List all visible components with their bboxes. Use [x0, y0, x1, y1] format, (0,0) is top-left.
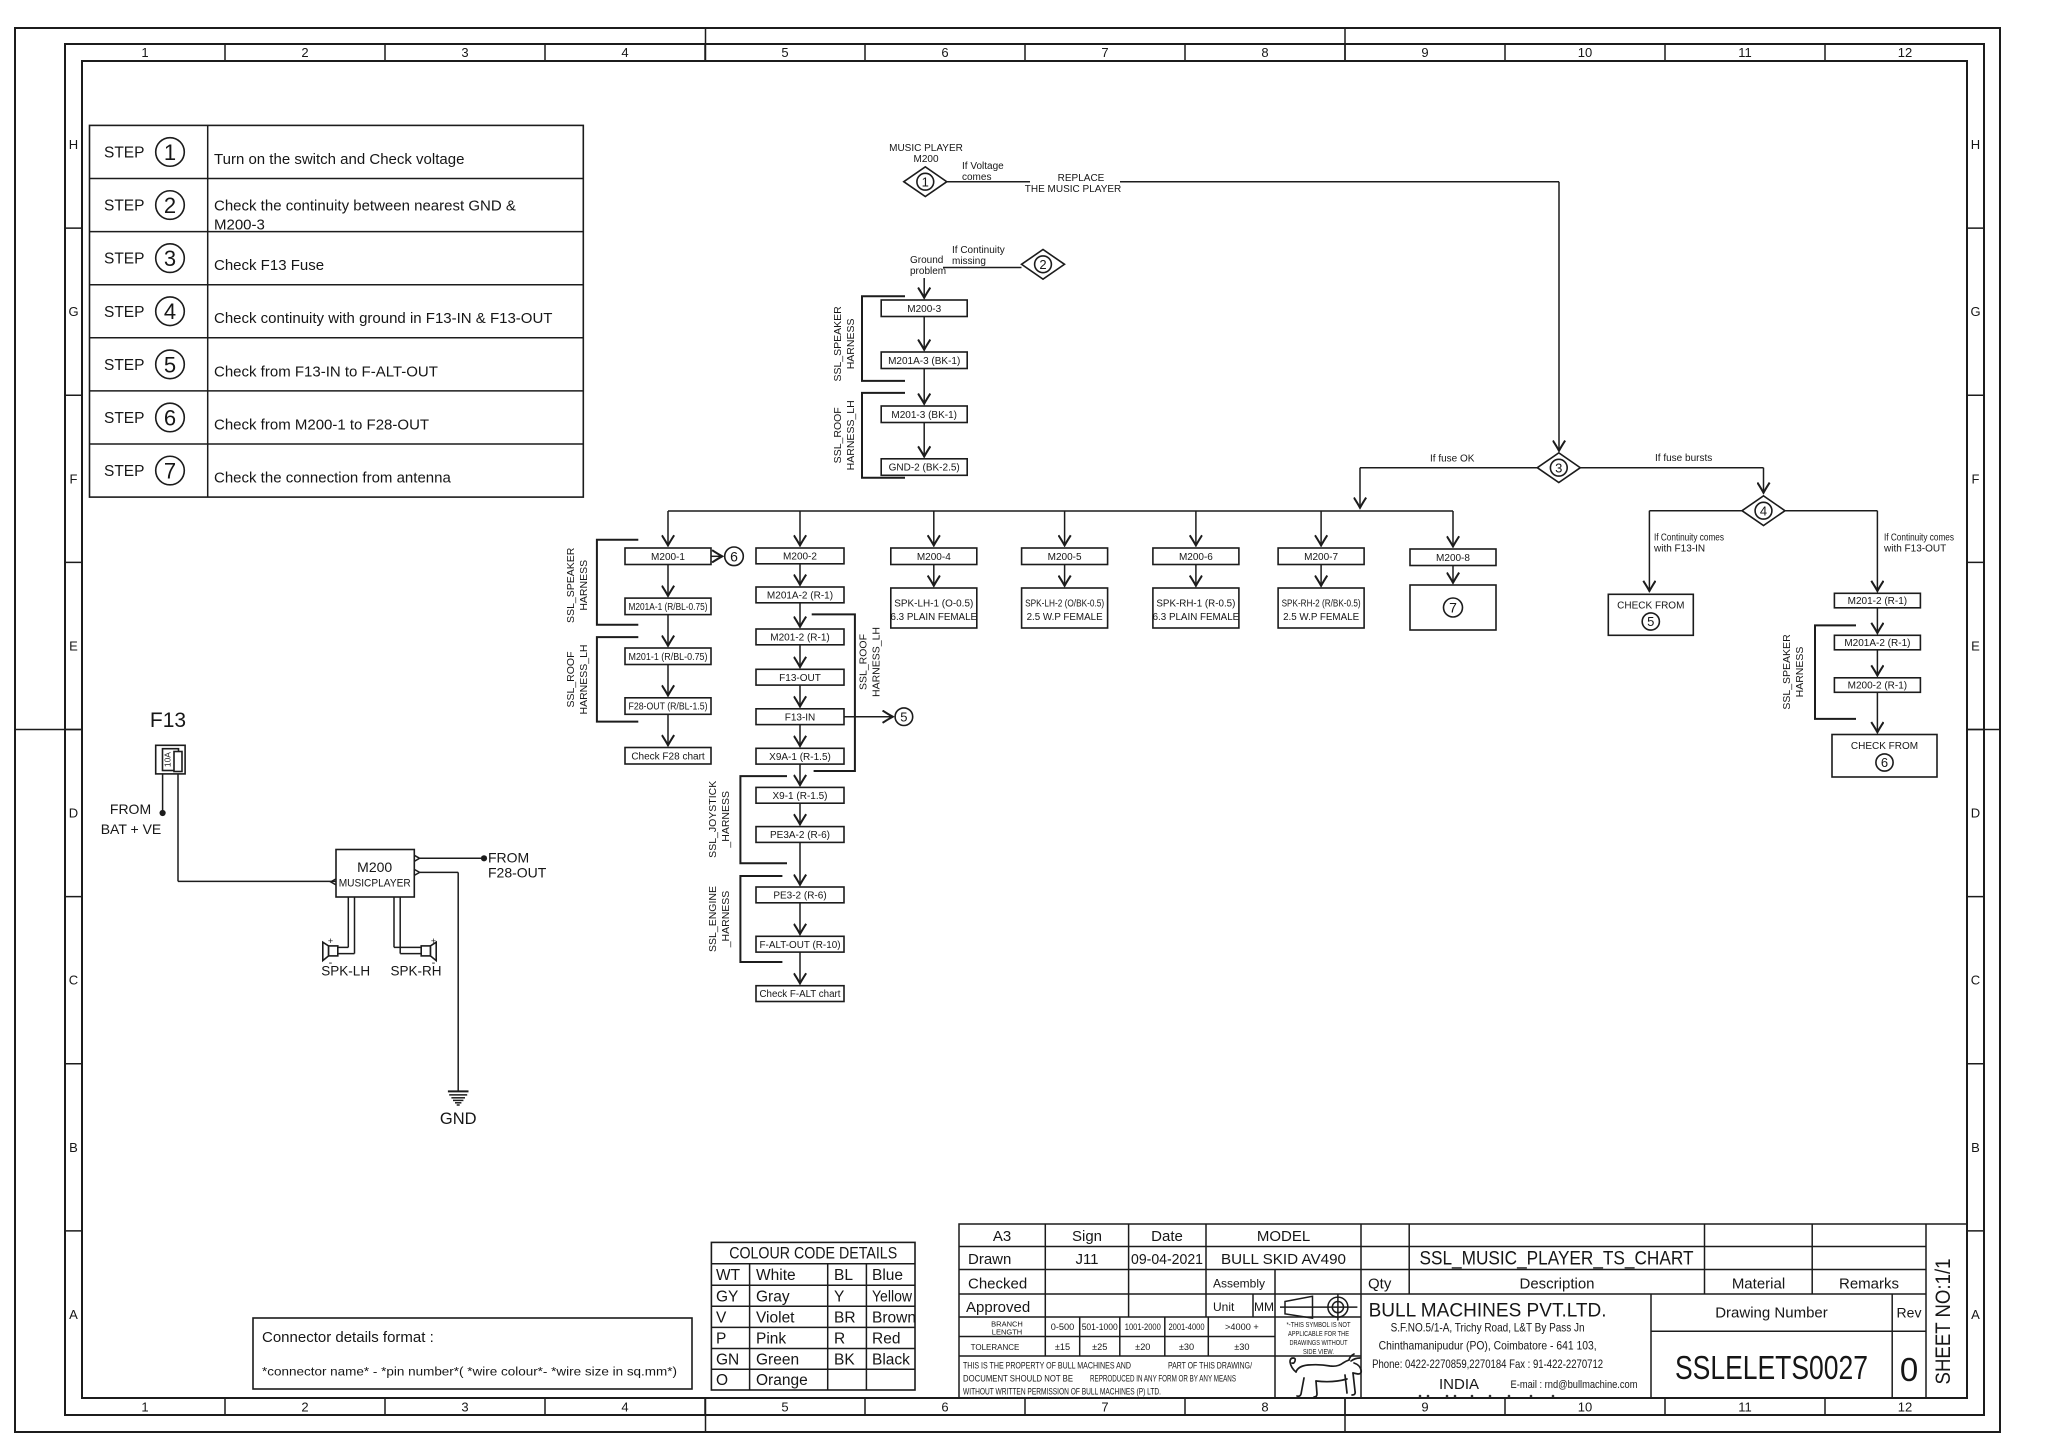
svg-text:S.F.NO.5/1-A, Trichy Road, L&T: S.F.NO.5/1-A, Trichy Road, L&T By Pass J… [1391, 1321, 1585, 1335]
svg-text:Red: Red [872, 1330, 900, 1347]
svg-text:Brown: Brown [872, 1309, 916, 1326]
svg-text:M201-2 (R-1): M201-2 (R-1) [1848, 596, 1907, 607]
svg-text:If Continuity comes: If Continuity comes [1654, 533, 1724, 544]
svg-text:9: 9 [1421, 45, 1428, 60]
svg-text:O: O [716, 1372, 728, 1389]
svg-text:5: 5 [164, 352, 176, 377]
svg-text:M200-3: M200-3 [907, 304, 941, 315]
svg-text:6: 6 [1881, 755, 1888, 770]
svg-text:M201A-1 (R/BL-0.75): M201A-1 (R/BL-0.75) [629, 602, 708, 613]
svg-text:SHEET NO:1/1: SHEET NO:1/1 [1932, 1259, 1955, 1385]
svg-text:Assembly: Assembly [1213, 1277, 1265, 1291]
svg-text:0-500: 0-500 [1051, 1322, 1075, 1332]
svg-text:Orange: Orange [756, 1372, 808, 1389]
svg-text:X9-1 (R-1.5): X9-1 (R-1.5) [772, 791, 827, 802]
svg-text:H: H [1971, 137, 1980, 152]
svg-text:5: 5 [1647, 614, 1654, 629]
svg-text:±20: ±20 [1135, 1342, 1150, 1352]
svg-text:C: C [1971, 973, 1980, 988]
svg-text:±30: ±30 [1179, 1342, 1194, 1352]
svg-text:Violet: Violet [756, 1309, 795, 1326]
svg-text:F28-OUT: F28-OUT [488, 865, 547, 881]
svg-text:5: 5 [781, 45, 788, 60]
svg-text:8: 8 [1261, 45, 1268, 60]
svg-text:BL: BL [834, 1267, 853, 1284]
svg-text:M200-2 (R-1): M200-2 (R-1) [1848, 681, 1907, 692]
svg-text:2: 2 [164, 193, 176, 218]
svg-text:FROM: FROM [110, 801, 151, 817]
svg-text:E: E [69, 638, 78, 653]
svg-text:SPK-RH-2 (R/BK-0.5): SPK-RH-2 (R/BK-0.5) [1282, 599, 1361, 610]
svg-text:SPK-RH-1 (R-0.5): SPK-RH-1 (R-0.5) [1156, 599, 1235, 610]
svg-text:1: 1 [164, 140, 176, 165]
svg-text:F-ALT-OUT (R-10): F-ALT-OUT (R-10) [760, 940, 841, 951]
svg-text:>4000 +: >4000 + [1225, 1322, 1259, 1332]
svg-text:4: 4 [621, 45, 628, 60]
svg-text:SSL_SPEAKER: SSL_SPEAKER [565, 547, 577, 623]
svg-text:DOCUMENT SHOULD NOT BE: DOCUMENT SHOULD NOT BE [963, 1374, 1073, 1385]
svg-text:3: 3 [164, 246, 176, 271]
svg-text:9: 9 [1421, 1400, 1428, 1415]
svg-text:2: 2 [1039, 257, 1046, 272]
svg-text:M200-1: M200-1 [651, 552, 685, 563]
svg-text:with F13-IN: with F13-IN [1653, 544, 1705, 555]
svg-text:Check F13 Fuse: Check F13 Fuse [214, 257, 324, 274]
svg-text:M200-2: M200-2 [783, 552, 817, 563]
svg-text:Remarks: Remarks [1839, 1276, 1899, 1293]
svg-text:2: 2 [301, 1400, 308, 1415]
svg-text:X9A-1 (R-1.5): X9A-1 (R-1.5) [769, 752, 831, 763]
svg-text:If fuse bursts: If fuse bursts [1655, 453, 1712, 464]
svg-text:8: 8 [1261, 1400, 1268, 1415]
svg-text:±30: ±30 [1234, 1342, 1249, 1352]
svg-text:If fuse OK: If fuse OK [1430, 454, 1475, 465]
svg-text:STEP: STEP [104, 251, 144, 268]
svg-text:1001-2000: 1001-2000 [1125, 1322, 1161, 1332]
svg-text:10: 10 [1578, 45, 1592, 60]
svg-text:CHECK FROM: CHECK FROM [1617, 601, 1684, 612]
svg-text:6: 6 [730, 548, 738, 564]
svg-text:G: G [1970, 304, 1980, 319]
svg-text:Chinthamanipudur (PO), Coimbat: Chinthamanipudur (PO), Coimbatore - 641 … [1379, 1339, 1597, 1353]
svg-text:If Voltage: If Voltage [962, 161, 1004, 172]
svg-text:CHECK FROM: CHECK FROM [1851, 741, 1918, 752]
svg-text:*connector name* - *pin numbe: *connector name* - *pin number*( *wire c… [262, 1365, 677, 1379]
svg-text:Approved: Approved [966, 1299, 1030, 1316]
svg-text:F: F [70, 471, 78, 486]
svg-text:1: 1 [141, 1400, 148, 1415]
svg-text:Check the continuity between n: Check the continuity between nearest GND… [214, 198, 516, 215]
svg-text:SSL_JOYSTICK: SSL_JOYSTICK [707, 781, 719, 858]
svg-text:MUSIC PLAYER: MUSIC PLAYER [889, 143, 963, 154]
svg-text:7: 7 [1101, 1400, 1108, 1415]
svg-text:STEP: STEP [104, 357, 144, 374]
svg-text:Check F28 chart: Check F28 chart [631, 751, 705, 762]
svg-text:Drawn: Drawn [968, 1251, 1011, 1268]
svg-text:WITHOUT WRITTEN PERMISSION OF: WITHOUT WRITTEN PERMISSION OF BULL MACHI… [963, 1387, 1161, 1398]
svg-text:M200-6: M200-6 [1179, 552, 1213, 563]
svg-text:0: 0 [1900, 1351, 1918, 1388]
svg-text:A: A [1971, 1307, 1980, 1322]
svg-text:GND: GND [440, 1110, 477, 1128]
svg-text:D: D [1971, 806, 1980, 821]
svg-text:STEP: STEP [104, 410, 144, 427]
svg-text:Connector details format :: Connector details format : [262, 1329, 434, 1346]
svg-text:MODEL: MODEL [1257, 1228, 1310, 1245]
svg-text:M200: M200 [913, 154, 938, 165]
svg-text:problem: problem [910, 266, 946, 277]
svg-text:Yellow: Yellow [872, 1288, 913, 1305]
svg-text:D: D [69, 806, 78, 821]
svg-text:F28-OUT (R/BL-1.5): F28-OUT (R/BL-1.5) [629, 702, 708, 713]
svg-text:STEP: STEP [104, 198, 144, 215]
svg-text:6: 6 [941, 45, 948, 60]
svg-text:Check continuity with ground i: Check continuity with ground in F13-IN &… [214, 310, 552, 327]
svg-text:E-mail : rnd@bullmachine.com: E-mail : rnd@bullmachine.com [1511, 1379, 1638, 1391]
svg-text:7: 7 [1449, 600, 1457, 616]
svg-text:501-1000: 501-1000 [1082, 1322, 1118, 1332]
svg-text:PE3A-2 (R-6): PE3A-2 (R-6) [770, 830, 830, 841]
svg-text:7: 7 [1101, 45, 1108, 60]
svg-text:12: 12 [1898, 1400, 1912, 1415]
svg-text:If Continuity comes: If Continuity comes [1884, 533, 1954, 544]
svg-text:5: 5 [900, 709, 907, 724]
svg-text:LENGTH: LENGTH [992, 1328, 1022, 1337]
svg-text:REPRODUCED IN ANY FORM OR BY A: REPRODUCED IN ANY FORM OR BY ANY MEANS [1090, 1374, 1236, 1385]
svg-text:+: + [328, 936, 333, 946]
svg-text:DRAWINGS WITHOUT: DRAWINGS WITHOUT [1290, 1338, 1348, 1347]
svg-text:SPK-LH-1 (O-0.5): SPK-LH-1 (O-0.5) [894, 599, 973, 610]
svg-text:Blue: Blue [872, 1267, 903, 1284]
svg-text:STEP: STEP [104, 144, 144, 161]
svg-text:+: + [431, 936, 436, 946]
svg-text:SIDE VIEW.: SIDE VIEW. [1303, 1347, 1334, 1356]
svg-text:±25: ±25 [1092, 1342, 1107, 1352]
svg-text:HARNESS_LH: HARNESS_LH [845, 400, 857, 470]
svg-text:Unit: Unit [1213, 1300, 1235, 1314]
svg-text:Rev: Rev [1897, 1305, 1922, 1321]
svg-text:BR: BR [834, 1309, 856, 1326]
svg-text:A3: A3 [993, 1228, 1011, 1245]
svg-text:M201-3 (BK-1): M201-3 (BK-1) [891, 410, 957, 421]
svg-text:Check from F13-IN to F-ALT-OUT: Check from F13-IN to F-ALT-OUT [214, 363, 438, 380]
svg-text:Description: Description [1519, 1276, 1594, 1293]
svg-text:PART OF THIS DRAWING/: PART OF THIS DRAWING/ [1168, 1361, 1252, 1372]
svg-text:MM: MM [1254, 1300, 1274, 1314]
svg-text:Check F-ALT chart: Check F-ALT chart [760, 989, 841, 1000]
svg-text:G: G [68, 304, 78, 319]
svg-text:10: 10 [1578, 1400, 1592, 1415]
svg-text:2: 2 [301, 45, 308, 60]
svg-text:6.3 PLAIN FEMALE: 6.3 PLAIN FEMALE [1153, 612, 1240, 623]
svg-text:6: 6 [164, 405, 176, 430]
svg-text:2.5 W.P FEMALE: 2.5 W.P FEMALE [1283, 612, 1360, 623]
svg-text:SSL_MUSIC_PLAYER_TS_CHART: SSL_MUSIC_PLAYER_TS_CHART [1420, 1249, 1694, 1270]
svg-text:GY: GY [716, 1288, 738, 1305]
svg-text:SPK-RH: SPK-RH [390, 964, 441, 979]
svg-text:B: B [69, 1140, 78, 1155]
svg-text:Black: Black [872, 1351, 910, 1368]
svg-text:F13-OUT: F13-OUT [779, 673, 821, 684]
svg-text:STEP: STEP [104, 463, 144, 480]
svg-text:F13-IN: F13-IN [785, 712, 816, 723]
svg-text:6: 6 [941, 1400, 948, 1415]
svg-text:M200-8: M200-8 [1436, 553, 1470, 564]
svg-text:SSLELETS0027: SSLELETS0027 [1675, 1349, 1868, 1386]
svg-text:HARNESS: HARNESS [578, 560, 590, 611]
svg-text:PE3-2 (R-6): PE3-2 (R-6) [773, 891, 826, 902]
svg-text:Sign: Sign [1072, 1228, 1102, 1245]
svg-text:SPK-LH: SPK-LH [321, 964, 370, 979]
svg-text:3: 3 [1555, 460, 1562, 475]
svg-text:Green: Green [756, 1351, 799, 1368]
svg-text:HARNESS_LH: HARNESS_LH [871, 627, 883, 697]
svg-text:FROM: FROM [488, 850, 529, 866]
svg-text:4: 4 [1760, 503, 1767, 518]
svg-text:4: 4 [164, 299, 176, 324]
svg-text:THIS IS THE PROPERTY OF BULL M: THIS IS THE PROPERTY OF BULL MACHINES AN… [963, 1361, 1131, 1372]
svg-text:±15: ±15 [1055, 1342, 1070, 1352]
svg-text:M201A-2 (R-1): M201A-2 (R-1) [767, 591, 833, 602]
svg-text:Material: Material [1732, 1276, 1785, 1293]
svg-text:6.3 PLAIN FEMALE: 6.3 PLAIN FEMALE [891, 612, 978, 623]
svg-text:2.5 W.P FEMALE: 2.5 W.P FEMALE [1027, 612, 1104, 623]
svg-text:COLOUR CODE DETAILS: COLOUR CODE DETAILS [729, 1245, 897, 1263]
svg-text:Check from M200-1 to F28-OUT: Check from M200-1 to F28-OUT [214, 416, 429, 433]
svg-text:Date: Date [1151, 1228, 1183, 1245]
svg-text:APPLICABLE FOR THE: APPLICABLE FOR THE [1288, 1329, 1349, 1338]
svg-text:INDIA: INDIA [1439, 1376, 1479, 1393]
svg-text:Y: Y [834, 1288, 844, 1305]
svg-text:5: 5 [781, 1400, 788, 1415]
svg-text:1: 1 [141, 45, 148, 60]
svg-text:M200: M200 [357, 859, 392, 875]
svg-text:Phone: 0422-2270859,2270184 Fa: Phone: 0422-2270859,2270184 Fax : 91-422… [1372, 1357, 1603, 1371]
svg-text:M201A-2 (R-1): M201A-2 (R-1) [1844, 638, 1910, 649]
svg-text:SPK-LH-2 (O/BK-0.5): SPK-LH-2 (O/BK-0.5) [1025, 599, 1104, 610]
svg-text:Drawing Number: Drawing Number [1715, 1305, 1828, 1322]
svg-text:B: B [1971, 1140, 1980, 1155]
svg-text:Turn on the switch and Check v: Turn on the switch and Check voltage [214, 151, 464, 168]
svg-text:THE MUSIC PLAYER: THE MUSIC PLAYER [1025, 184, 1122, 195]
svg-text:BULL MACHINES PVT.LTD.: BULL MACHINES PVT.LTD. [1369, 1301, 1607, 1322]
svg-text:Gray: Gray [756, 1288, 790, 1305]
svg-text:Pink: Pink [756, 1330, 786, 1347]
svg-text:WT: WT [716, 1267, 741, 1284]
svg-text:E: E [1971, 638, 1980, 653]
svg-text:V: V [716, 1309, 727, 1326]
svg-text:M200-7: M200-7 [1304, 552, 1338, 563]
svg-text:BK: BK [834, 1351, 855, 1368]
svg-text:*-THIS SYMBOL IS NOT: *-THIS SYMBOL IS NOT [1287, 1320, 1351, 1329]
svg-text:1: 1 [922, 174, 929, 189]
svg-text:SSL_ROOF: SSL_ROOF [832, 407, 844, 463]
svg-text:F13: F13 [150, 709, 186, 732]
svg-text:J11: J11 [1075, 1251, 1098, 1268]
svg-text:H: H [69, 137, 78, 152]
svg-text:M201-2 (R-1): M201-2 (R-1) [770, 633, 829, 644]
svg-text:If Continuity: If Continuity [952, 245, 1005, 256]
svg-text:A: A [69, 1307, 78, 1322]
svg-text:M200-5: M200-5 [1048, 552, 1082, 563]
svg-text:SSL_SPEAKER: SSL_SPEAKER [832, 306, 844, 382]
svg-text:F: F [1972, 471, 1980, 486]
svg-text:GND-2 (BK-2.5): GND-2 (BK-2.5) [889, 463, 960, 474]
svg-text:12: 12 [1898, 45, 1912, 60]
svg-text:11: 11 [1738, 45, 1752, 60]
svg-text:2001-4000: 2001-4000 [1169, 1322, 1205, 1332]
svg-text:P: P [716, 1330, 726, 1347]
svg-text:GN: GN [716, 1351, 739, 1368]
svg-text:M200-4: M200-4 [917, 552, 951, 563]
svg-text:Check the connection from ante: Check the connection from antenna [214, 470, 451, 487]
svg-text:BAT + VE: BAT + VE [101, 821, 162, 837]
svg-text:White: White [756, 1267, 796, 1284]
svg-text:M201A-3 (BK-1): M201A-3 (BK-1) [888, 356, 960, 367]
svg-text:_HARNESS: _HARNESS [720, 791, 732, 849]
svg-text:HARNESS: HARNESS [1794, 647, 1806, 698]
svg-text:Checked: Checked [968, 1276, 1027, 1293]
svg-text:SSL_ROOF: SSL_ROOF [565, 651, 577, 707]
svg-text:7: 7 [164, 458, 176, 483]
svg-text:MUSICPLAYER: MUSICPLAYER [339, 878, 411, 890]
svg-text:SSL_SPEAKER: SSL_SPEAKER [1781, 634, 1793, 710]
svg-text:M201-1 (R/BL-0.75): M201-1 (R/BL-0.75) [629, 652, 708, 663]
svg-text:Ground: Ground [910, 255, 943, 266]
svg-text:10A: 10A [162, 752, 172, 767]
svg-text:TOLERANCE: TOLERANCE [971, 1343, 1020, 1352]
svg-text:REPLACE: REPLACE [1058, 173, 1105, 184]
svg-text:3: 3 [461, 1400, 468, 1415]
svg-text:R: R [834, 1330, 845, 1347]
svg-text:missing: missing [952, 256, 986, 267]
svg-text:11: 11 [1738, 1400, 1752, 1415]
svg-text:HARNESS_LH: HARNESS_LH [578, 644, 590, 714]
svg-text:HARNESS: HARNESS [845, 319, 857, 370]
svg-text:SSL_ENGINE: SSL_ENGINE [707, 886, 719, 952]
svg-text:STEP: STEP [104, 304, 144, 321]
svg-text:3: 3 [461, 45, 468, 60]
svg-text:M200-3: M200-3 [214, 217, 265, 234]
svg-text:Qty: Qty [1368, 1276, 1392, 1293]
svg-text:C: C [69, 973, 78, 988]
svg-text:SSL_ROOF: SSL_ROOF [858, 634, 870, 690]
svg-text:with F13-OUT: with F13-OUT [1883, 544, 1946, 555]
svg-text:09-04-2021: 09-04-2021 [1131, 1251, 1203, 1268]
svg-text:BULL SKID AV490: BULL SKID AV490 [1221, 1251, 1346, 1268]
svg-text:4: 4 [621, 1400, 628, 1415]
svg-text:_HARNESS: _HARNESS [720, 891, 732, 949]
